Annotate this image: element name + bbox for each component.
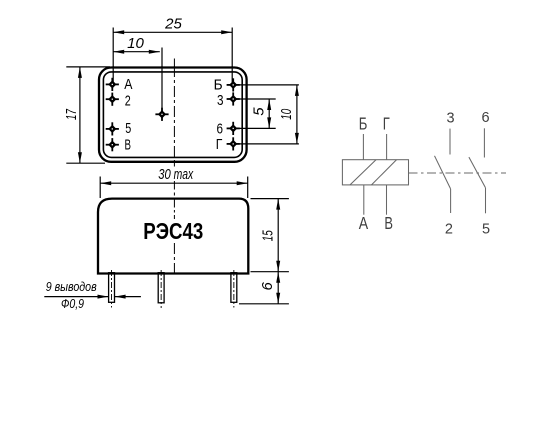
svg-text:2: 2: [125, 93, 131, 109]
svg-text:РЭС43: РЭС43: [143, 218, 203, 244]
svg-text:6: 6: [217, 121, 224, 137]
svg-text:3: 3: [217, 93, 224, 109]
svg-text:10: 10: [278, 108, 295, 119]
svg-text:max: max: [174, 166, 194, 183]
svg-text:25: 25: [164, 16, 182, 33]
svg-text:2: 2: [445, 222, 453, 238]
svg-text:9 выводов: 9 выводов: [46, 280, 97, 294]
svg-text:В: В: [125, 138, 132, 154]
svg-text:6: 6: [482, 110, 490, 126]
svg-text:6: 6: [259, 281, 276, 290]
svg-text:10: 10: [127, 35, 144, 52]
svg-text:5: 5: [250, 107, 267, 116]
svg-text:30: 30: [158, 166, 171, 183]
svg-text:Г: Г: [383, 114, 390, 134]
svg-text:15: 15: [260, 230, 277, 241]
svg-text:Б: Б: [359, 114, 368, 134]
svg-text:5: 5: [125, 121, 131, 137]
svg-text:Г: Г: [216, 137, 223, 153]
svg-text:3: 3: [446, 110, 454, 126]
svg-text:А: А: [124, 77, 132, 93]
svg-text:Б: Б: [214, 78, 223, 94]
svg-text:В: В: [384, 213, 393, 233]
svg-text:17: 17: [63, 109, 80, 120]
svg-text:Ф0,9: Ф0,9: [61, 297, 84, 311]
svg-text:А: А: [359, 213, 369, 233]
svg-text:5: 5: [482, 221, 490, 237]
